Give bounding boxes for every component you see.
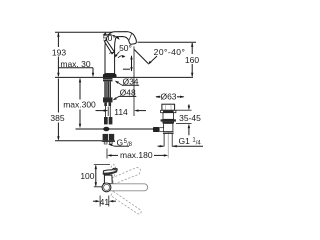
spout angle schematic (vertical ray, angled ray, arrows) <box>118 50 148 72</box>
svg-text:G11/4: G11/4 <box>179 136 202 146</box>
svg-text:50°: 50° <box>103 33 116 43</box>
base dark <box>103 183 114 185</box>
waste clamp nut <box>161 119 176 121</box>
svg-text:max.300: max.300 <box>63 100 96 110</box>
label Ø48 with leader <box>113 88 137 101</box>
label 50° (lower) with leader <box>114 43 132 58</box>
shank end blocks <box>104 102 107 106</box>
label 50° (upper, lever angle) with arc <box>103 32 120 43</box>
dimension 193 / 385 shared vertical line <box>57 33 59 139</box>
svg-text:100: 100 <box>80 171 94 181</box>
pop-up rod (horizontal) <box>76 128 161 129</box>
faucet body + spout (front view) <box>105 32 136 74</box>
detail view: ghost lever steep (up position) <box>111 164 116 179</box>
threaded shank <box>104 81 111 97</box>
deck / countertop line <box>55 76 193 78</box>
detail view: ghost lever horizontal with pivot circle <box>102 183 148 192</box>
svg-text:193: 193 <box>52 48 66 58</box>
detail view: ghost lever mid (up-right) <box>112 168 141 184</box>
waste lower band <box>163 131 174 134</box>
svg-text:20°-40°: 20°-40° <box>154 47 186 57</box>
lever pivot detail <box>109 52 114 53</box>
mounting nut <box>103 97 113 102</box>
supply hoses <box>105 106 107 117</box>
dimension 114 <box>96 47 147 117</box>
svg-text:35-45: 35-45 <box>179 113 201 123</box>
detail view: ghost lever down-right <box>111 191 141 214</box>
dimension max. 30 <box>58 59 94 77</box>
rod ball joint <box>103 127 109 132</box>
svg-text:160: 160 <box>185 55 199 65</box>
dimension max.180 <box>107 149 168 161</box>
rod knob (dark) <box>153 127 159 132</box>
hose end tails <box>104 142 107 144</box>
waste upper body <box>163 113 174 120</box>
rod connector on waste <box>159 128 163 132</box>
detail view: dimension 100 <box>80 165 116 187</box>
waste flange <box>161 110 176 112</box>
waste plug top <box>162 104 175 110</box>
dimension 160 <box>185 42 199 77</box>
label G 5/8 with leader + underline <box>108 137 133 148</box>
hose connection nuts (G 5/8) <box>103 134 109 141</box>
svg-text:385: 385 <box>50 113 64 123</box>
dimension max.300 <box>63 78 96 128</box>
waste tailpipe (open-ended) <box>163 134 165 147</box>
under-deck: washer <box>103 78 113 82</box>
detail view: solid faucet side body <box>103 168 117 185</box>
waste lower body <box>164 123 173 131</box>
label Ø34 with leader <box>115 76 139 86</box>
dimension 35-45 <box>176 104 201 135</box>
label 20°-40° with leader <box>148 47 186 65</box>
svg-text:114: 114 <box>114 107 128 117</box>
hose fittings pair <box>104 117 108 124</box>
bottom reference line (hose end level) <box>55 140 102 142</box>
svg-text:Ø63: Ø63 <box>160 92 176 102</box>
arrowheads for 193/385 <box>57 32 59 140</box>
pop-up waste: center line <box>167 104 169 158</box>
outlet level reference line <box>138 41 197 43</box>
solid lever <box>103 168 117 174</box>
faucet base ring (dark) <box>103 74 116 77</box>
label Ø63 with arrows <box>155 92 184 102</box>
top reference line (spout top level) <box>55 31 114 33</box>
lever handle (front view) <box>105 40 115 54</box>
svg-text:50°: 50° <box>119 43 132 53</box>
aerator junction line <box>129 34 132 41</box>
svg-text:41: 41 <box>100 197 110 207</box>
svg-text:max.180: max.180 <box>120 150 153 160</box>
label G1 1/4 with arrows + underline <box>158 136 204 147</box>
detail view: dimension 41 <box>93 196 116 207</box>
